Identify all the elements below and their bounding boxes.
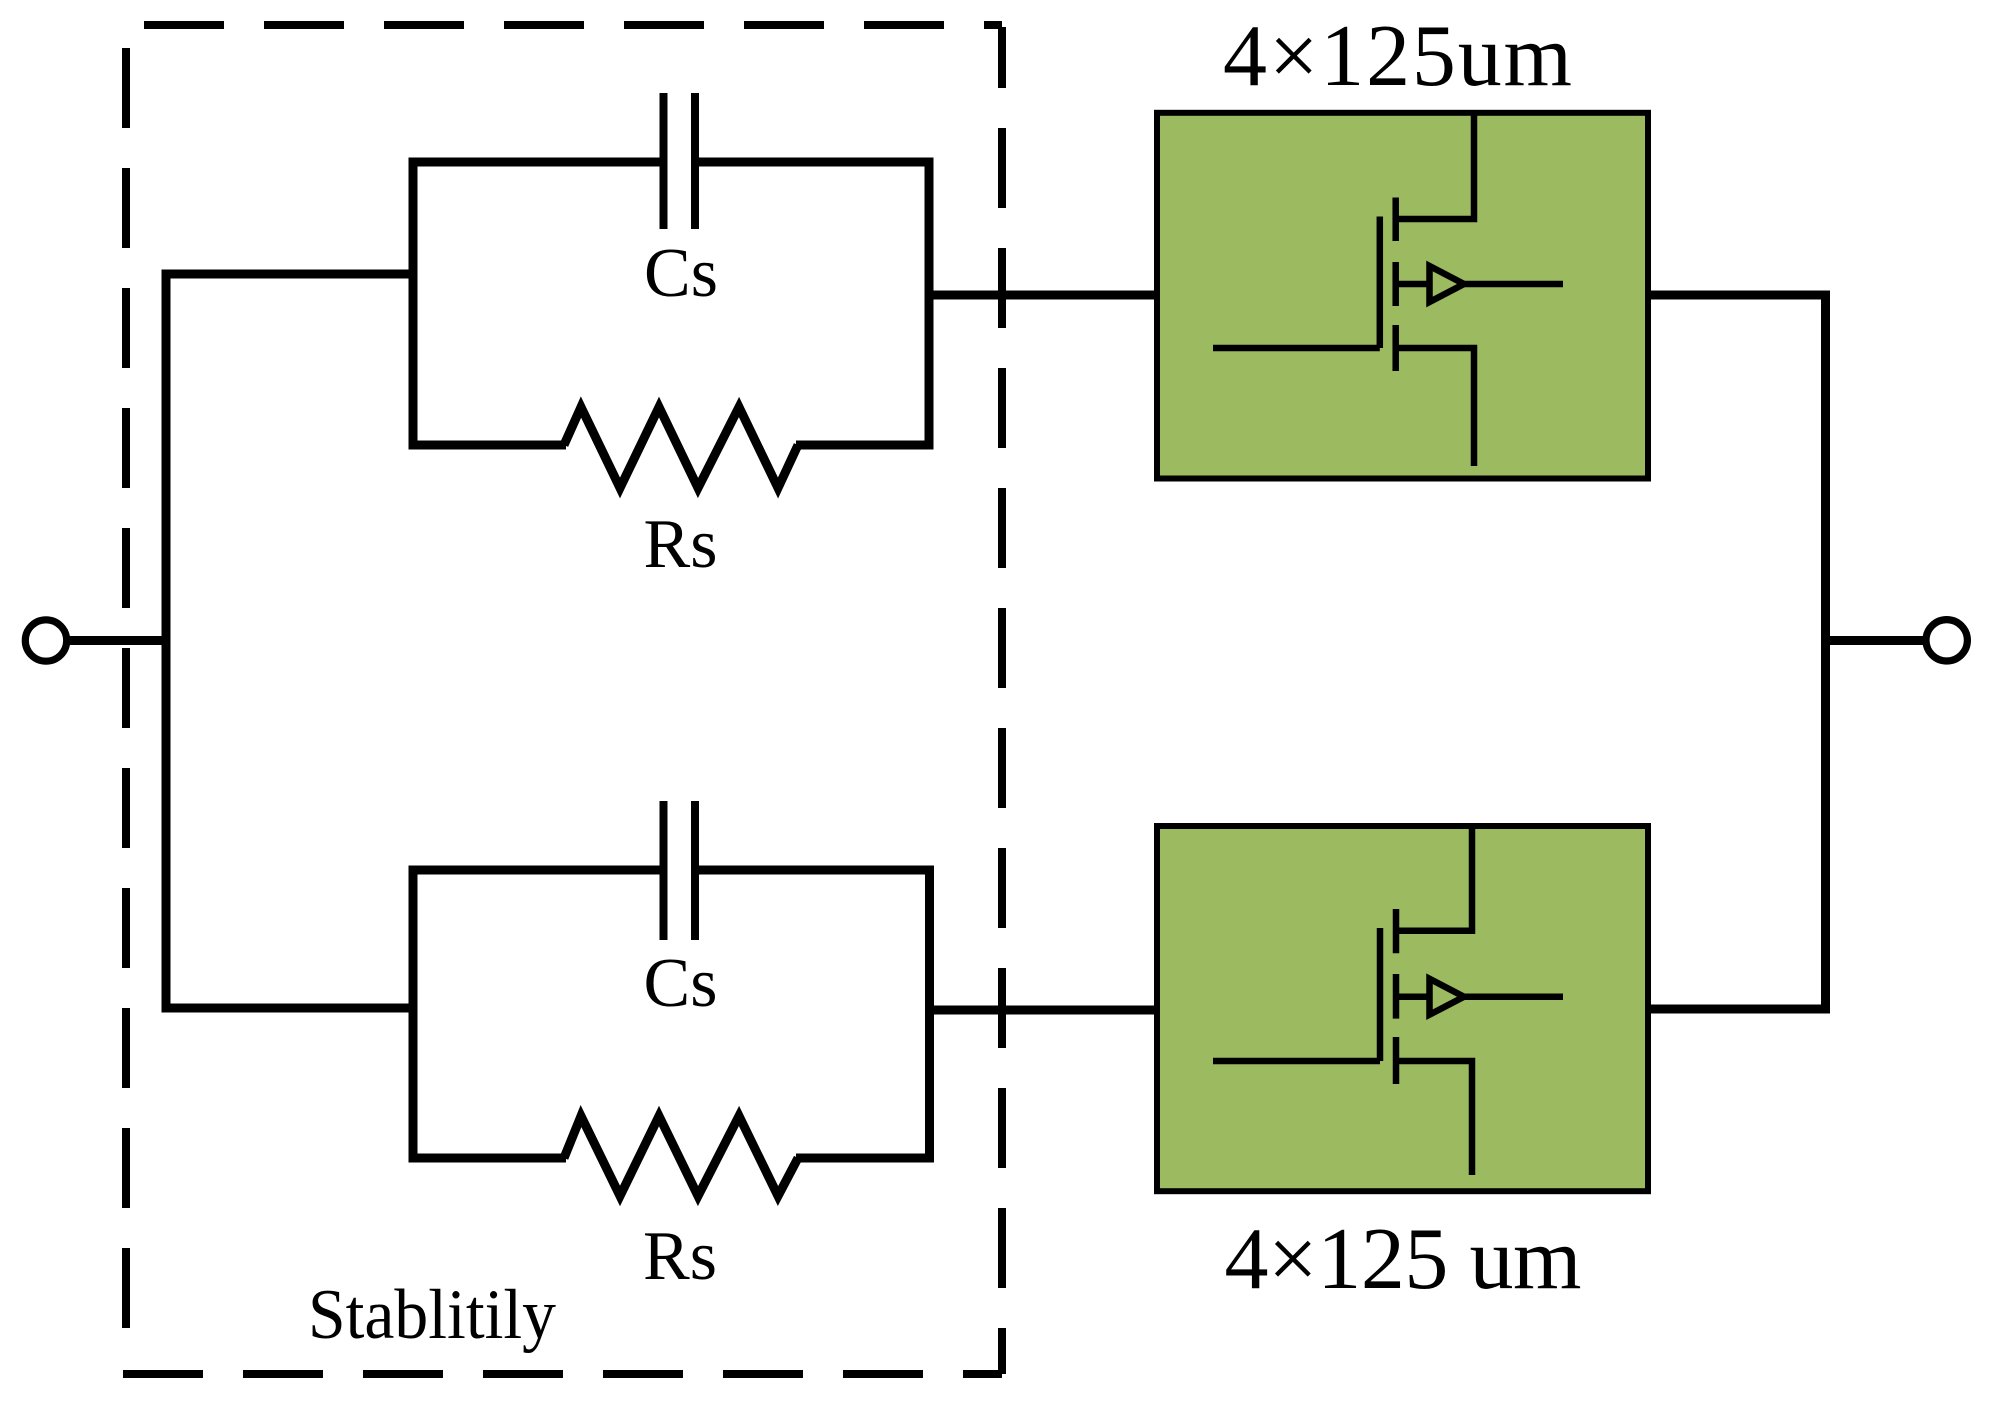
wire: bottom RC cell left frame [413, 870, 663, 1158]
svg-text:Cs: Cs [644, 235, 718, 312]
transistor M1 gate lead [1213, 345, 1380, 352]
wire: top RC cell left frame [413, 162, 663, 445]
transistor M1 bulk lead left [1396, 281, 1427, 288]
transistor M2 channel bar bottom (source contact) [1393, 1037, 1400, 1084]
svg-text:Stablitily: Stablitily [308, 1276, 556, 1354]
transistor cell box (bottom) [1157, 826, 1648, 1191]
transistor M1 source lead [1396, 348, 1474, 466]
resistor Rs (bottom) [564, 1116, 798, 1196]
wire: output lead [1825, 636, 1926, 645]
dashed box: right edge [998, 27, 1006, 1374]
capacitor Cs (bottom): left plate [660, 801, 668, 940]
capacitor Cs (bottom): right plate [691, 801, 699, 940]
transistor M1 drain lead [1396, 110, 1474, 219]
svg-text:4×125um: 4×125um [1223, 8, 1572, 105]
transistor M2 gate line [1377, 928, 1384, 1061]
svg-text:4×125 um: 4×125 um [1225, 1211, 1582, 1308]
wire: left trunk with top and bottom branches [166, 274, 413, 1008]
wire: bottom RC output to FET box [930, 1006, 1161, 1015]
svg-text:Rs: Rs [643, 1218, 717, 1295]
transistor M2 bulk lead right [1462, 993, 1563, 1000]
transistor M2 bulk lead left [1396, 993, 1427, 1000]
svg-text:Cs: Cs [644, 945, 718, 1022]
transistor M2 drain lead [1396, 824, 1472, 931]
input terminal circle [25, 620, 66, 661]
transistor M2 channel bar middle (bulk contact) [1393, 974, 1400, 1019]
dashed box: bottom edge [123, 1370, 1002, 1378]
transistor M2 channel bar top (drain contact) [1393, 909, 1400, 953]
wire: input lead [66, 636, 170, 645]
output terminal circle [1926, 620, 1967, 661]
resistor Rs (top) [564, 407, 798, 488]
capacitor Cs (top): right plate [691, 93, 699, 229]
transistor M1 bulk arrow [1430, 266, 1465, 302]
dashed box: left edge [122, 25, 130, 1358]
wire: top RC cell right frame [695, 162, 929, 445]
transistor M1 bulk lead right [1462, 281, 1563, 288]
svg-text:Rs: Rs [644, 506, 718, 583]
wire: bottom RC cell right frame [695, 870, 930, 1158]
dashed box Stability network: top edge [144, 21, 1002, 29]
transistor M1 gate line [1377, 217, 1384, 349]
transistor M1 channel bar top (drain contact) [1392, 198, 1399, 242]
transistor M1 channel bar middle (bulk contact) [1392, 262, 1399, 306]
transistor M2 source lead [1396, 1061, 1472, 1175]
transistor cell box (top) [1157, 113, 1648, 479]
capacitor Cs (top): left plate [660, 93, 668, 229]
transistor M1 channel bar bottom (source contact) [1392, 325, 1399, 371]
transistor M2 bulk arrow [1430, 979, 1465, 1015]
wire: right trunk with top/bottom FET outputs [1646, 295, 1826, 1009]
wire: top RC output to FET box [929, 291, 1160, 300]
transistor M2 gate lead [1213, 1058, 1380, 1065]
